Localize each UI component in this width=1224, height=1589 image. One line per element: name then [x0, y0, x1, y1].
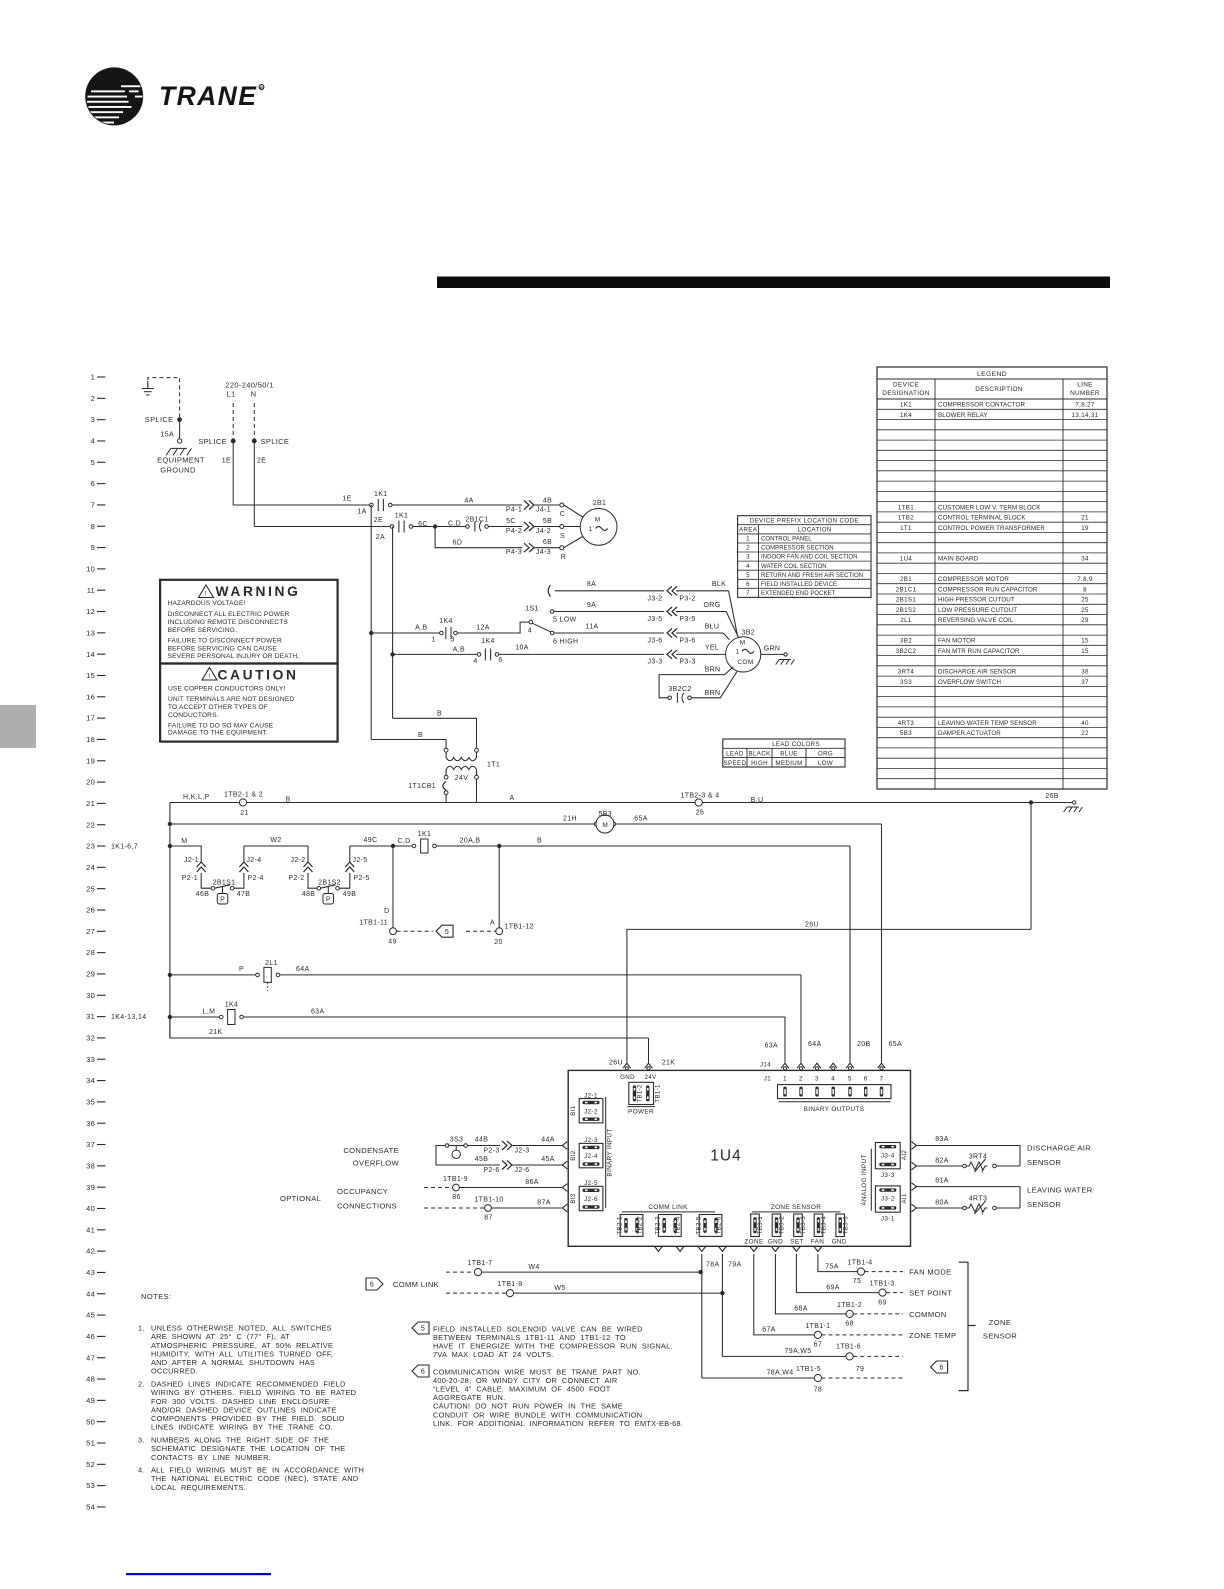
svg-text:27: 27	[86, 927, 95, 936]
svg-text:OVERFLOW SWITCH: OVERFLOW SWITCH	[938, 679, 1001, 686]
wire 11A high speed	[554, 632, 664, 634]
warning box	[160, 580, 338, 664]
svg-text:83A: 83A	[935, 1136, 949, 1143]
svg-text:UNIT TERMINALS ARE NOT DES: UNIT TERMINALS ARE NOT DESIGNED	[168, 696, 294, 703]
svg-text:B,U: B,U	[751, 797, 764, 804]
svg-text:TB2-2: TB2-2	[637, 1216, 644, 1235]
svg-text:DESCRIPTION: DESCRIPTION	[975, 386, 1023, 393]
svg-text:LEAVING WATER: LEAVING WATER	[1027, 1186, 1093, 1195]
svg-text:RETURN AND FRESH AIR SECTI: RETURN AND FRESH AIR SECTION	[761, 573, 863, 579]
svg-text:13: 13	[86, 628, 95, 637]
svg-text:SENSOR: SENSOR	[983, 1332, 1017, 1341]
low pressure cutout 2B1S2	[317, 886, 321, 890]
svg-text:69A: 69A	[826, 1284, 840, 1291]
svg-text:2B1: 2B1	[900, 576, 912, 583]
wire secondary right A	[476, 779, 478, 802]
svg-text:81A: 81A	[935, 1178, 949, 1185]
svg-text:CONDENSATE: CONDENSATE	[343, 1146, 399, 1155]
wire 6D drop	[435, 527, 522, 548]
svg-text:1TB1-5: 1TB1-5	[796, 1366, 821, 1373]
svg-text:30: 30	[86, 991, 95, 1000]
blue footer rule	[126, 1573, 271, 1575]
wire N dashed	[253, 403, 255, 439]
junction line23	[168, 844, 172, 848]
wire 64A vertical to board pin2	[800, 975, 802, 1063]
svg-text:20: 20	[494, 939, 503, 946]
svg-text:J1: J1	[764, 1075, 771, 1082]
svg-text:COMPRESSOR SECTION: COMPRESSOR SECTION	[761, 546, 834, 552]
svg-text:20: 20	[86, 778, 95, 787]
svg-text:67: 67	[814, 1342, 823, 1349]
contactor contact 1K1 line8	[390, 525, 394, 529]
svg-text:26: 26	[86, 906, 95, 915]
svg-text:C,D: C,D	[448, 521, 461, 528]
svg-text:24V: 24V	[644, 1074, 657, 1081]
svg-text:A: A	[509, 795, 514, 802]
svg-text:B: B	[437, 711, 442, 718]
svg-text:6: 6	[746, 581, 750, 588]
svg-text:75: 75	[853, 1278, 862, 1285]
svg-text:DISCHARGE AIR SENSOR: DISCHARGE AIR SENSOR	[938, 669, 1017, 676]
wire line21 H,K,L,P	[170, 802, 1031, 804]
zone sensor connector TB3-1	[751, 1214, 760, 1237]
svg-text:4B: 4B	[543, 498, 552, 505]
svg-text:1: 1	[91, 373, 95, 382]
svg-text:B: B	[537, 838, 542, 845]
svg-text:BI1: BI1	[570, 1105, 577, 1115]
lead colors table	[723, 739, 845, 767]
svg-text:6: 6	[939, 1365, 943, 1372]
svg-text:5B3: 5B3	[599, 811, 613, 818]
svg-text:A,B: A,B	[415, 625, 427, 632]
binary outputs label	[779, 1101, 891, 1103]
svg-text:NOTES:: NOTES:	[141, 1292, 171, 1301]
svg-text:22: 22	[86, 820, 95, 829]
equipment ground chassis symbol	[166, 448, 191, 455]
svg-text:14: 14	[86, 650, 95, 659]
svg-text:L,M: L,M	[203, 1008, 216, 1015]
wire A drop to 1TB1-12	[498, 846, 500, 928]
svg-text:B: B	[418, 732, 423, 739]
svg-text:17: 17	[86, 714, 95, 723]
wire BRN upper	[659, 667, 733, 698]
svg-text:15: 15	[1081, 638, 1089, 645]
svg-text:49: 49	[388, 938, 397, 945]
splice dot L1	[231, 439, 236, 444]
svg-text:FAN MODE: FAN MODE	[909, 1268, 951, 1277]
svg-text:COMPRESSOR RUN CAPACITOR: COMPRESSOR RUN CAPACITOR	[938, 586, 1038, 593]
svg-text:SPLICE: SPLICE	[145, 415, 174, 424]
svg-text:TB2-4: TB2-4	[675, 1216, 682, 1235]
svg-text:40: 40	[86, 1204, 95, 1213]
svg-text:B: B	[286, 797, 291, 804]
svg-text:TB3-3: TB3-3	[800, 1216, 807, 1235]
wire 49C	[350, 845, 393, 847]
svg-text:SPLICE: SPLICE	[198, 437, 227, 446]
svg-text:1TB2-3 & 4: 1TB2-3 & 4	[681, 793, 720, 800]
svg-text:J3-3: J3-3	[647, 659, 662, 666]
damper actuator 5B3	[594, 822, 597, 825]
wire 63A	[243, 1016, 785, 1018]
svg-text:5: 5	[91, 458, 95, 467]
svg-text:5: 5	[848, 1075, 852, 1082]
svg-text:48B: 48B	[302, 891, 316, 898]
svg-text:YEL: YEL	[705, 645, 719, 652]
svg-text:TB2-3: TB2-3	[655, 1216, 662, 1235]
svg-text:MEDIUM: MEDIUM	[775, 760, 802, 767]
svg-text:BLK: BLK	[712, 581, 726, 588]
dashed from 1TB1-5	[822, 1377, 904, 1379]
svg-text:33: 33	[86, 1055, 95, 1064]
dashed wire flag5 to 1TB1-12	[466, 930, 496, 932]
svg-text:1K1: 1K1	[374, 491, 388, 498]
svg-text:USE COPPER CONDUCTORS ONLY!: USE COPPER CONDUCTORS ONLY!	[168, 686, 285, 693]
svg-text:50: 50	[86, 1417, 95, 1426]
svg-text:J3-1: J3-1	[881, 1215, 895, 1222]
svg-text:13,14,31: 13,14,31	[1072, 412, 1099, 419]
binary input group line and label	[605, 1097, 607, 1208]
svg-text:21K: 21K	[209, 1029, 223, 1036]
svg-text:10A: 10A	[515, 645, 529, 652]
svg-text:LOW PRESSURE CUTOUT: LOW PRESSURE CUTOUT	[938, 607, 1017, 614]
svg-text:1K4-13,14: 1K4-13,14	[111, 1014, 146, 1021]
svg-text:1TB1-7: 1TB1-7	[467, 1260, 492, 1267]
svg-text:45B: 45B	[475, 1156, 489, 1163]
wire W5	[514, 1292, 723, 1294]
svg-text:65A: 65A	[634, 816, 648, 823]
plug J3-5/P3-5	[667, 607, 672, 616]
svg-text:2L1: 2L1	[900, 617, 912, 624]
svg-text:OCCUPANCY: OCCUPANCY	[337, 1187, 388, 1196]
svg-text:1TB1-4: 1TB1-4	[847, 1260, 872, 1267]
svg-text:26U: 26U	[609, 1060, 623, 1067]
wire 21H	[170, 823, 594, 825]
svg-text:S: S	[560, 533, 565, 540]
svg-text:25: 25	[86, 884, 95, 893]
svg-text:M: M	[602, 822, 608, 829]
flag 5 solenoid note	[436, 925, 453, 937]
svg-text:AREA: AREA	[739, 527, 758, 534]
svg-text:4: 4	[91, 437, 95, 446]
svg-text:P4-1: P4-1	[506, 506, 522, 513]
wire B to pin5 drop	[499, 845, 850, 847]
high pressure cutout 2B1S1	[211, 886, 215, 890]
leaving water thermistor 4RT3	[917, 1207, 964, 1209]
terminal 1TB1-12	[496, 928, 503, 935]
wire 4A	[392, 504, 522, 506]
svg-text:87: 87	[484, 1214, 493, 1221]
svg-text:BEFORE SERVICING.: BEFORE SERVICING.	[168, 627, 237, 634]
svg-text:J3-2: J3-2	[647, 596, 662, 603]
wire 21K vertical to 24V pin	[648, 1038, 650, 1063]
wire 78A drop	[701, 1254, 703, 1378]
svg-text:34: 34	[86, 1076, 95, 1085]
svg-text:SPLICE: SPLICE	[261, 437, 290, 446]
analog input connector AI1 J3-2 J3-1	[875, 1186, 900, 1212]
svg-text:25: 25	[1081, 607, 1089, 614]
device prefix location code table	[738, 516, 871, 598]
svg-text:4: 4	[473, 658, 477, 665]
svg-text:3B2C2: 3B2C2	[668, 686, 691, 693]
svg-text:1K4: 1K4	[481, 638, 495, 645]
svg-text:45A: 45A	[541, 1156, 555, 1163]
svg-text:POWER: POWER	[628, 1109, 654, 1116]
svg-text:ZONE: ZONE	[989, 1318, 1012, 1327]
svg-text:4: 4	[528, 628, 532, 635]
dashed zone temp	[822, 1334, 904, 1336]
svg-text:FAILURE TO DISCONNECT POWER: FAILURE TO DISCONNECT POWER	[168, 638, 282, 645]
svg-text:1K4: 1K4	[225, 1002, 239, 1009]
svg-text:75A: 75A	[825, 1263, 839, 1270]
svg-text:1: 1	[783, 1075, 787, 1082]
svg-text:52: 52	[86, 1460, 95, 1469]
zone sensor connector TB3-4	[814, 1214, 823, 1237]
svg-text:2E: 2E	[374, 517, 383, 524]
plug J3-6/P3-6	[667, 629, 672, 638]
fan motor 3B2	[726, 637, 761, 672]
svg-text:ANALOG INPUT: ANALOG INPUT	[861, 1154, 868, 1205]
wire 79A,W5 to 1TB1-6	[722, 1355, 846, 1357]
svg-text:CAUTION: CAUTION	[217, 667, 298, 682]
terminal 1TB1-9	[453, 1184, 460, 1191]
wire B right drop	[392, 654, 394, 718]
svg-text:20A,B: 20A,B	[460, 838, 481, 845]
svg-text:1.: 1.	[138, 1324, 145, 1333]
svg-text:J3-5: J3-5	[647, 616, 662, 623]
wire P to 2L1	[170, 974, 256, 976]
dashed wire to flag 5	[397, 930, 433, 932]
svg-text:M: M	[740, 640, 746, 647]
wire 86A	[459, 1187, 561, 1189]
svg-text:28: 28	[86, 948, 95, 957]
gray page tab	[0, 705, 36, 748]
wire 47B up through plug P2-4/J2-4	[234, 873, 244, 888]
svg-text:J4-1: J4-1	[536, 506, 551, 513]
svg-text:TB1-2: TB1-2	[636, 1084, 643, 1103]
terminal 1TB1-4	[857, 1268, 864, 1275]
wire 65A vertical to board pin7	[881, 824, 883, 1063]
svg-text:P3-6: P3-6	[679, 638, 695, 645]
svg-text:W4: W4	[528, 1264, 539, 1271]
svg-text:P: P	[220, 897, 225, 904]
caution box	[160, 664, 338, 742]
svg-text:9A: 9A	[587, 602, 596, 609]
svg-text:FAN MTR RUN CAPACITOR: FAN MTR RUN CAPACITOR	[938, 648, 1020, 655]
svg-text:SENSOR: SENSOR	[1027, 1158, 1061, 1167]
wire C,D to capacitor	[435, 526, 465, 528]
svg-text:68: 68	[845, 1321, 854, 1328]
dashed wire to 1TB1-10	[424, 1207, 485, 1209]
svg-text:ZONE TEMP: ZONE TEMP	[909, 1331, 956, 1340]
svg-text:2: 2	[91, 394, 95, 403]
wire 1E vertical	[232, 441, 234, 505]
svg-text:26B: 26B	[1045, 793, 1059, 800]
dashed common	[853, 1313, 903, 1315]
zone sensor connector TB3-2	[772, 1214, 781, 1237]
svg-text:t: t	[982, 1211, 984, 1217]
svg-text:86A: 86A	[525, 1179, 539, 1186]
svg-text:HIGH PRESSOR CUTOUT: HIGH PRESSOR CUTOUT	[938, 597, 1015, 604]
wire B left drop	[370, 633, 372, 740]
svg-text:BRN: BRN	[705, 690, 721, 697]
svg-text:J2-5: J2-5	[353, 857, 368, 864]
svg-text:LINE: LINE	[1077, 381, 1093, 388]
svg-text:DISCHARGE AIR: DISCHARGE AIR	[1027, 1144, 1091, 1153]
svg-text:CONTROL TERMINAL BLOCK: CONTROL TERMINAL BLOCK	[938, 515, 1026, 522]
svg-text:DAMAGE TO THE EQUIPMENT.: DAMAGE TO THE EQUIPMENT.	[168, 730, 268, 737]
svg-text:1U4: 1U4	[900, 556, 913, 563]
svg-text:1TB2: 1TB2	[898, 515, 914, 522]
svg-text:24V: 24V	[455, 775, 469, 782]
svg-text:CUSTOMER LOW V. TERM BLOCK: CUSTOMER LOW V. TERM BLOCK	[938, 504, 1041, 511]
dashed wire to 1TB1-9	[424, 1187, 453, 1189]
svg-text:87A: 87A	[537, 1200, 551, 1207]
svg-text:78A,W4: 78A,W4	[767, 1370, 794, 1377]
fan ground symbol	[776, 660, 795, 665]
svg-text:ORG: ORG	[704, 602, 721, 609]
terminal 1TB1-5	[814, 1374, 821, 1381]
svg-text:EXTENDED END POCKET: EXTENDED END POCKET	[761, 591, 836, 597]
wire 26U horizontal	[627, 929, 1031, 1062]
svg-text:1TB1-2: 1TB1-2	[837, 1302, 862, 1309]
svg-text:79A: 79A	[728, 1262, 742, 1269]
svg-text:J4-3: J4-3	[536, 549, 551, 556]
svg-text:37: 37	[1081, 679, 1089, 686]
svg-text:4RT3: 4RT3	[898, 720, 915, 727]
wire 4B to motor terminal C	[534, 504, 560, 506]
svg-text:63A: 63A	[311, 1008, 325, 1015]
wire 20A,B	[436, 845, 499, 847]
svg-text:1TB1-8: 1TB1-8	[497, 1281, 522, 1288]
ground 26B chassis	[1064, 807, 1083, 812]
svg-text:86: 86	[452, 1194, 461, 1201]
svg-text:47B: 47B	[237, 891, 251, 898]
splice dot equipment ground	[177, 417, 182, 422]
svg-text:43: 43	[86, 1268, 95, 1277]
terminal circle	[177, 439, 181, 443]
svg-text:REVERSING VALVE COIL: REVERSING VALVE COIL	[938, 617, 1014, 624]
svg-text:5B3: 5B3	[900, 730, 912, 737]
svg-text:7: 7	[880, 1075, 884, 1082]
svg-text:1K1: 1K1	[418, 831, 432, 838]
wire splice to ground terminal	[179, 420, 181, 439]
junction W4/78A	[698, 1270, 702, 1274]
wire GRN to ground	[761, 653, 784, 655]
svg-text:6: 6	[864, 1075, 868, 1082]
terminal 1TB1-8	[506, 1290, 513, 1297]
svg-text:3S3: 3S3	[900, 679, 912, 686]
svg-text:6: 6	[91, 479, 95, 488]
plug J2-1/P2-1	[197, 862, 206, 867]
svg-text:COMM LINK: COMM LINK	[648, 1204, 688, 1211]
svg-text:BINARY OUTPUTS: BINARY OUTPUTS	[804, 1106, 865, 1113]
svg-text:21: 21	[86, 799, 95, 808]
junction 49C/D	[391, 844, 395, 848]
svg-text:78A: 78A	[706, 1262, 720, 1269]
wire 44A into BI2	[512, 1145, 562, 1147]
svg-text:GND: GND	[620, 1074, 635, 1081]
svg-text:BLOWER RELAY: BLOWER RELAY	[938, 412, 988, 419]
svg-text:80A: 80A	[935, 1200, 949, 1207]
binary outputs connector box	[778, 1085, 892, 1099]
svg-text:1E: 1E	[222, 457, 231, 464]
terminal 1TB1-2	[846, 1310, 853, 1317]
svg-text:INDOOR FAN AND COIL SECTIO: INDOOR FAN AND COIL SECTION	[761, 555, 857, 561]
svg-text:79A,W5: 79A,W5	[785, 1348, 812, 1355]
svg-text:2B1S2: 2B1S2	[896, 607, 917, 614]
junction 6C/6D	[433, 524, 437, 528]
svg-text:1S1: 1S1	[525, 606, 539, 613]
svg-text:P3-5: P3-5	[679, 616, 695, 623]
svg-text:3.: 3.	[138, 1436, 145, 1445]
wire 10A	[503, 653, 664, 655]
fan speed common bracket	[548, 585, 550, 597]
svg-text:53: 53	[86, 1481, 95, 1490]
svg-text:OCCURRED.: OCCURRED.	[151, 1367, 198, 1376]
svg-text:BLACK: BLACK	[748, 751, 771, 758]
board left edge pins 44A 45A 86A 87A	[562, 1142, 567, 1150]
wire 5B to motor terminal S	[534, 526, 560, 528]
svg-text:FIELD INSTALLED DEVICE: FIELD INSTALLED DEVICE	[761, 582, 837, 588]
svg-text:DEVICE PREFIX LOCATION CODE: DEVICE PREFIX LOCATION CODE	[750, 518, 859, 525]
svg-text:3RT4: 3RT4	[898, 669, 915, 676]
svg-text:65A: 65A	[889, 1041, 903, 1048]
svg-text:4RT3: 4RT3	[969, 1196, 987, 1203]
svg-text:TB3-4: TB3-4	[821, 1216, 828, 1235]
svg-text:TB1-1: TB1-1	[655, 1084, 662, 1103]
svg-text:SEVERE PERSONAL INJURY OR: SEVERE PERSONAL INJURY OR DEATH.	[168, 653, 300, 660]
svg-text:1: 1	[746, 536, 750, 543]
wire 44B to plug	[467, 1145, 500, 1147]
analog input connector AI2 J3-4 J3-3	[875, 1143, 900, 1169]
comm link connector TB2-5 TB2-6	[699, 1215, 722, 1237]
circuit breaker 1T1CB1	[443, 782, 446, 791]
svg-text:FAILURE TO DO SO MAY CAUS: FAILURE TO DO SO MAY CAUSE	[168, 722, 274, 729]
analog input group line and label	[870, 1149, 872, 1211]
svg-text:49: 49	[86, 1396, 95, 1405]
zone sensor bracket	[959, 1262, 969, 1390]
svg-text:L1: L1	[226, 390, 235, 399]
wire 45A into BI2	[512, 1164, 562, 1166]
svg-text:19: 19	[1081, 525, 1089, 532]
svg-text:t: t	[982, 1169, 984, 1175]
svg-text:6D: 6D	[453, 540, 463, 547]
plug P4-2/J4-2	[524, 522, 529, 531]
svg-text:FAN MOTOR: FAN MOTOR	[938, 638, 976, 645]
plug P2-6/J2-6	[502, 1161, 507, 1170]
board right edge pins 83A 82A 81A 80A	[912, 1142, 917, 1150]
wire C into motor	[564, 505, 584, 518]
svg-text:1TB1-11: 1TB1-11	[359, 919, 388, 926]
svg-text:4A: 4A	[464, 498, 473, 505]
svg-text:3: 3	[815, 1075, 819, 1082]
svg-text:34: 34	[1081, 556, 1089, 563]
svg-text:68A: 68A	[794, 1306, 808, 1313]
svg-text:6C: 6C	[418, 521, 428, 528]
svg-text:CONTROL POWER TRANSFORMER: CONTROL POWER TRANSFORMER	[938, 525, 1045, 532]
svg-text:P2-1: P2-1	[182, 875, 198, 882]
svg-text:79: 79	[856, 1366, 865, 1373]
svg-text:46: 46	[86, 1332, 95, 1341]
svg-text:LOCATION: LOCATION	[798, 527, 832, 534]
plug J3-3/P3-3	[667, 650, 672, 659]
wire 6B to motor terminal R	[534, 547, 560, 549]
svg-text:6: 6	[421, 1369, 425, 1376]
vertical bus line21-32	[169, 803, 171, 1039]
svg-text:SET POINT: SET POINT	[909, 1289, 952, 1298]
svg-text:WATER COIL SECTION: WATER COIL SECTION	[761, 564, 827, 570]
svg-text:2B1S2: 2B1S2	[318, 879, 341, 886]
